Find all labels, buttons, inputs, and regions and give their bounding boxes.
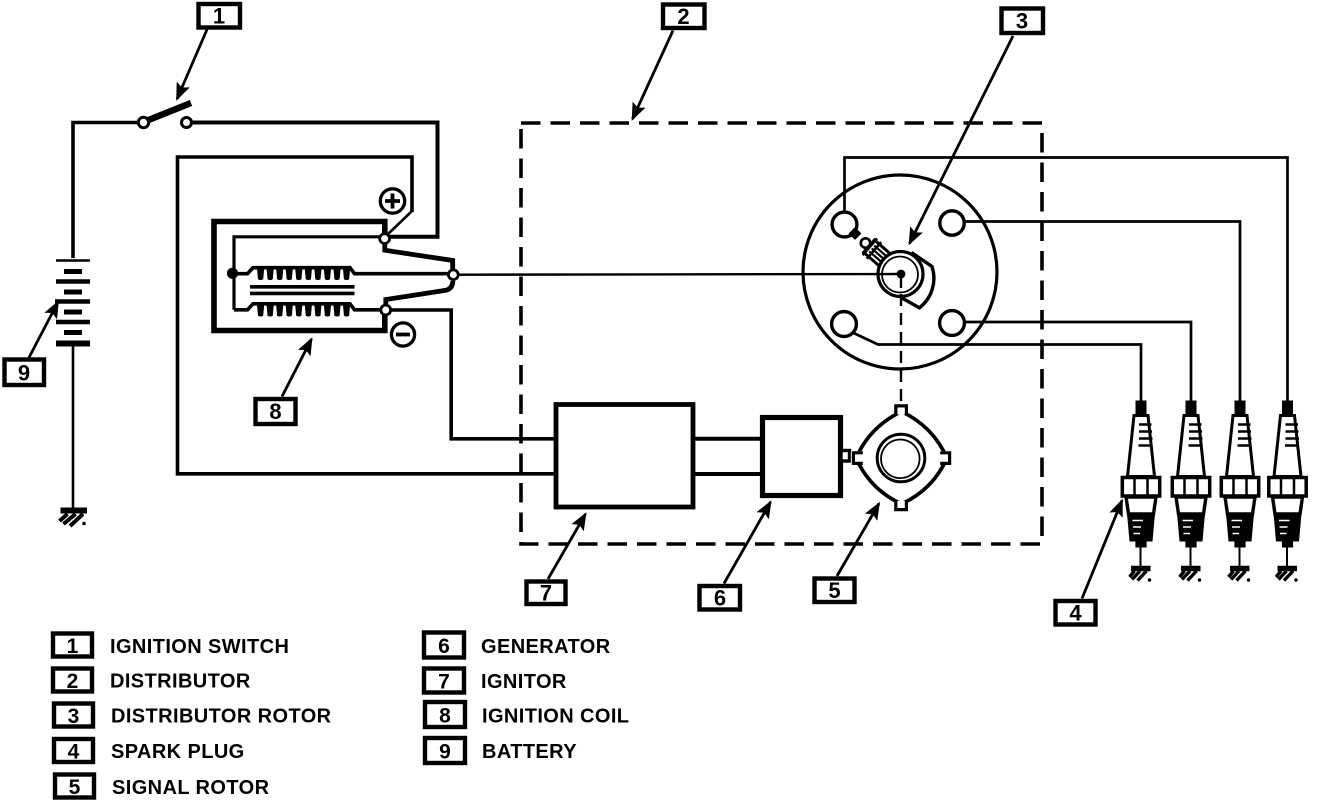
legend box 2 bbox=[53, 669, 92, 692]
wire: coil HT output to rotor center bbox=[458, 273, 898, 276]
svg-text:7: 7 bbox=[540, 581, 552, 606]
generator pickup stub bbox=[841, 451, 850, 462]
svg-text:9: 9 bbox=[18, 361, 30, 386]
svg-text:6: 6 bbox=[714, 586, 726, 611]
legend box 4 bbox=[54, 739, 93, 762]
legend box 3 bbox=[54, 704, 93, 727]
wire: battery negative to ground bbox=[72, 345, 75, 509]
coil secondary winding teeth bbox=[257, 269, 350, 281]
svg-text:GENERATOR: GENERATOR bbox=[481, 636, 611, 658]
wire: NE terminal to spark plug 3 bbox=[963, 222, 1240, 402]
callout 5 (signal rotor) bbox=[815, 504, 880, 604]
svg-text:SPARK PLUG: SPARK PLUG bbox=[111, 741, 245, 763]
legend box 7 bbox=[424, 669, 464, 693]
svg-text:8: 8 bbox=[439, 705, 451, 728]
rotor center outer circle bbox=[878, 252, 923, 297]
legend box 9 bbox=[425, 738, 465, 763]
rotor center dot bbox=[897, 270, 906, 279]
callout 1 (ignition switch) bbox=[177, 4, 240, 100]
callout 8 (ignition coil) bbox=[256, 339, 312, 424]
node: coil + terminal bbox=[380, 234, 390, 244]
svg-text:DISTRIBUTOR ROTOR: DISTRIBUTOR ROTOR bbox=[111, 706, 332, 728]
ignition coil case (item 8) bbox=[214, 222, 385, 331]
coil primary winding outline bbox=[234, 304, 381, 310]
wire: SE terminal to spark plug 2 bbox=[964, 322, 1191, 401]
node: coil HT terminal bbox=[448, 270, 458, 280]
svg-text:5: 5 bbox=[69, 776, 81, 799]
svg-text:3: 3 bbox=[1016, 9, 1028, 34]
svg-text:4: 4 bbox=[1069, 601, 1082, 626]
node: coil - terminal bbox=[381, 305, 391, 315]
battery BT (item 9) bbox=[55, 261, 90, 344]
svg-text:6: 6 bbox=[438, 635, 450, 658]
wire: SW terminal to spark plug 1 bbox=[853, 333, 1142, 402]
callout 9 (battery) bbox=[5, 302, 59, 386]
distributor boundary box (item 2, dashed) bbox=[521, 123, 1042, 544]
wire: diagonal + branch into node bbox=[387, 212, 412, 236]
rotor arm body bbox=[862, 238, 903, 278]
distributor cap terminal NE bbox=[940, 211, 964, 235]
svg-text:3: 3 bbox=[68, 705, 80, 728]
spark plug P3 bbox=[1221, 401, 1258, 582]
legend box 6 bbox=[424, 633, 464, 658]
svg-text:1: 1 bbox=[213, 4, 225, 29]
rotor center inner circle bbox=[882, 257, 918, 293]
coil core bbox=[250, 287, 355, 294]
distributor cap terminal SE bbox=[940, 311, 965, 336]
callout 2 (distributor) bbox=[633, 4, 705, 119]
distributor shaft dashed centerline bbox=[900, 276, 902, 288]
svg-text:IGNITION COIL: IGNITION COIL bbox=[482, 705, 629, 727]
wire: battery positive to ignition switch bbox=[73, 123, 138, 259]
distributor cap circle bbox=[803, 175, 997, 369]
wire: + branch loop to ignitor lower input bbox=[178, 157, 557, 474]
ignition switch SW (item 1) bbox=[138, 103, 191, 128]
generator (item 6) bbox=[763, 418, 841, 496]
svg-text:BATTERY: BATTERY bbox=[482, 741, 577, 763]
rotor arm contact tip bbox=[849, 227, 862, 240]
svg-text:IGNITOR: IGNITOR bbox=[481, 671, 567, 693]
ground (battery) bbox=[60, 511, 88, 527]
svg-text:9: 9 bbox=[439, 741, 451, 764]
coil inner wire frame bbox=[234, 237, 383, 310]
svg-text:2: 2 bbox=[677, 4, 689, 29]
coil winding junction dot bbox=[227, 268, 238, 279]
wire: NW terminal to spark plug 4 bbox=[845, 158, 1288, 402]
callout 6 (generator) bbox=[700, 502, 771, 611]
legend box 5 bbox=[55, 775, 94, 798]
distributor cap terminal SW bbox=[832, 312, 857, 337]
svg-text:IGNITION SWITCH: IGNITION SWITCH bbox=[110, 636, 289, 658]
svg-text:7: 7 bbox=[438, 671, 450, 694]
callout 7 (ignitor) bbox=[527, 514, 586, 606]
spark plug P1 bbox=[1122, 401, 1159, 582]
rotor arm spring loop bbox=[861, 238, 870, 247]
svg-text:8: 8 bbox=[269, 399, 281, 424]
coil + terminal symbol bbox=[380, 189, 404, 213]
svg-text:4: 4 bbox=[68, 741, 80, 764]
svg-text:5: 5 bbox=[828, 578, 840, 603]
legend box 1 bbox=[53, 634, 92, 657]
callout 4 (spark plug) bbox=[1056, 501, 1123, 626]
coil - terminal symbol bbox=[391, 323, 414, 346]
svg-text:1: 1 bbox=[67, 635, 79, 658]
spark plug P2 bbox=[1172, 401, 1209, 582]
ignitor (item 7) bbox=[556, 405, 693, 508]
distributor cap terminal NW bbox=[832, 212, 857, 237]
coil primary winding teeth bbox=[257, 305, 350, 317]
svg-text:SIGNAL ROTOR: SIGNAL ROTOR bbox=[112, 777, 270, 799]
rotor counterweight wedge bbox=[901, 253, 934, 308]
signal rotor (item 5) bbox=[851, 403, 953, 513]
spark plug P4 bbox=[1269, 401, 1306, 582]
svg-text:DISTRIBUTOR: DISTRIBUTOR bbox=[110, 670, 251, 692]
coil HT tower outline bbox=[385, 242, 453, 306]
wire: switch to coil + node bbox=[192, 123, 438, 237]
legend box 8 bbox=[425, 702, 465, 727]
callout 3 (distributor rotor) bbox=[910, 9, 1044, 244]
coil secondary winding outline bbox=[233, 268, 449, 274]
wires: ignitor to generator bbox=[693, 439, 762, 474]
wire: coil negative to ignitor upper input bbox=[390, 310, 556, 439]
svg-text:2: 2 bbox=[67, 670, 79, 693]
